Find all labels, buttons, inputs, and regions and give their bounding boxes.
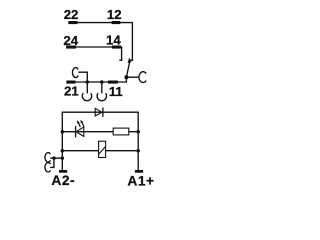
svg-text:22: 22 xyxy=(64,7,79,22)
svg-text:11: 11 xyxy=(109,84,123,99)
svg-text:21: 21 xyxy=(64,84,79,99)
svg-text:14: 14 xyxy=(106,33,121,48)
svg-text:A2-: A2- xyxy=(51,173,75,188)
svg-text:24: 24 xyxy=(63,33,78,48)
svg-text:A1+: A1+ xyxy=(127,173,154,188)
svg-text:12: 12 xyxy=(107,7,122,22)
